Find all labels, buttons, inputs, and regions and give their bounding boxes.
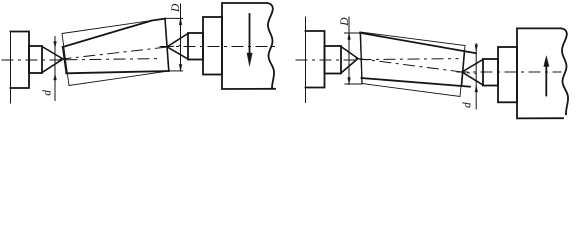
turned taper small end face [63,47,67,73]
tailstock sleeve [188,33,203,60]
dimension D arrow lower [179,64,182,71]
dimension D extension tick lower [169,70,183,72]
headstock centerline [2,59,66,61]
tailstock centerline 2 [457,71,561,73]
dimension d arrow lower 2 [475,86,478,92]
turned taper large end face [165,19,169,71]
dimension d arrow lower [54,74,57,80]
turned taper top edge 2 (thick) [360,33,476,53]
turned taper bottom edge (thick) [66,71,169,73]
dimension D line [180,4,182,71]
tilted workpiece axis [60,46,180,60]
headstock block [11,32,30,89]
dimension d extension line 2 [475,44,477,110]
headstock sleeve [29,46,42,73]
tailstock live center cone [167,34,188,60]
turned taper top edge (thick) [63,19,165,47]
offset direction arrow (down) [249,14,251,53]
dimension D line 2 [348,17,350,85]
svg-text:D: D [339,17,351,27]
tailstock body with break line [222,3,275,89]
workpiece blank outline (thin) [62,19,169,86]
headstock dead center cone [42,47,63,73]
headstock block 2 [306,31,325,88]
headstock block left edge and extension 2 [305,17,307,103]
dimension D arrow upper [179,18,182,25]
tailstock live center cone 2 [462,60,483,86]
turned taper small end face 2 [462,51,465,86]
headstock block left edge and extension [10,32,12,104]
workpiece blank outline 2 (thin) [360,32,465,97]
tailstock body with break line 2 [517,28,568,118]
headstock sleeve 2 [325,46,342,74]
dimension D extension tick lower 2 [345,83,362,85]
offset direction arrow (up) [545,67,547,96]
dimension d arrow upper 2 [475,45,478,51]
lathe axis extension through workpiece [66,59,160,60]
tailstock sleeve 2 [483,59,498,86]
dimension d extension line [54,37,56,101]
tailstock quill block 2 [498,47,517,102]
headstock dead center cone 2 [341,47,358,74]
turned taper large end face 2 [361,33,363,84]
dimension d arrow upper [54,42,57,48]
svg-text:d: d [462,102,474,108]
dimension D arrow upper 2 [348,33,351,40]
dimension D extension tick upper 2 [345,32,361,34]
turned taper bottom edge 2 (thick) [362,78,471,87]
dimension D extension tick upper [165,17,183,19]
dimension D arrow lower 2 [348,78,351,85]
svg-text:d: d [42,90,54,96]
lathe axis extension through workpiece 2 [360,59,458,60]
tilted workpiece axis 2 [356,58,476,74]
headstock centerline 2 [296,59,360,61]
svg-text:D: D [170,3,182,13]
tailstock quill block [203,17,222,75]
tailstock centerline [160,46,277,48]
